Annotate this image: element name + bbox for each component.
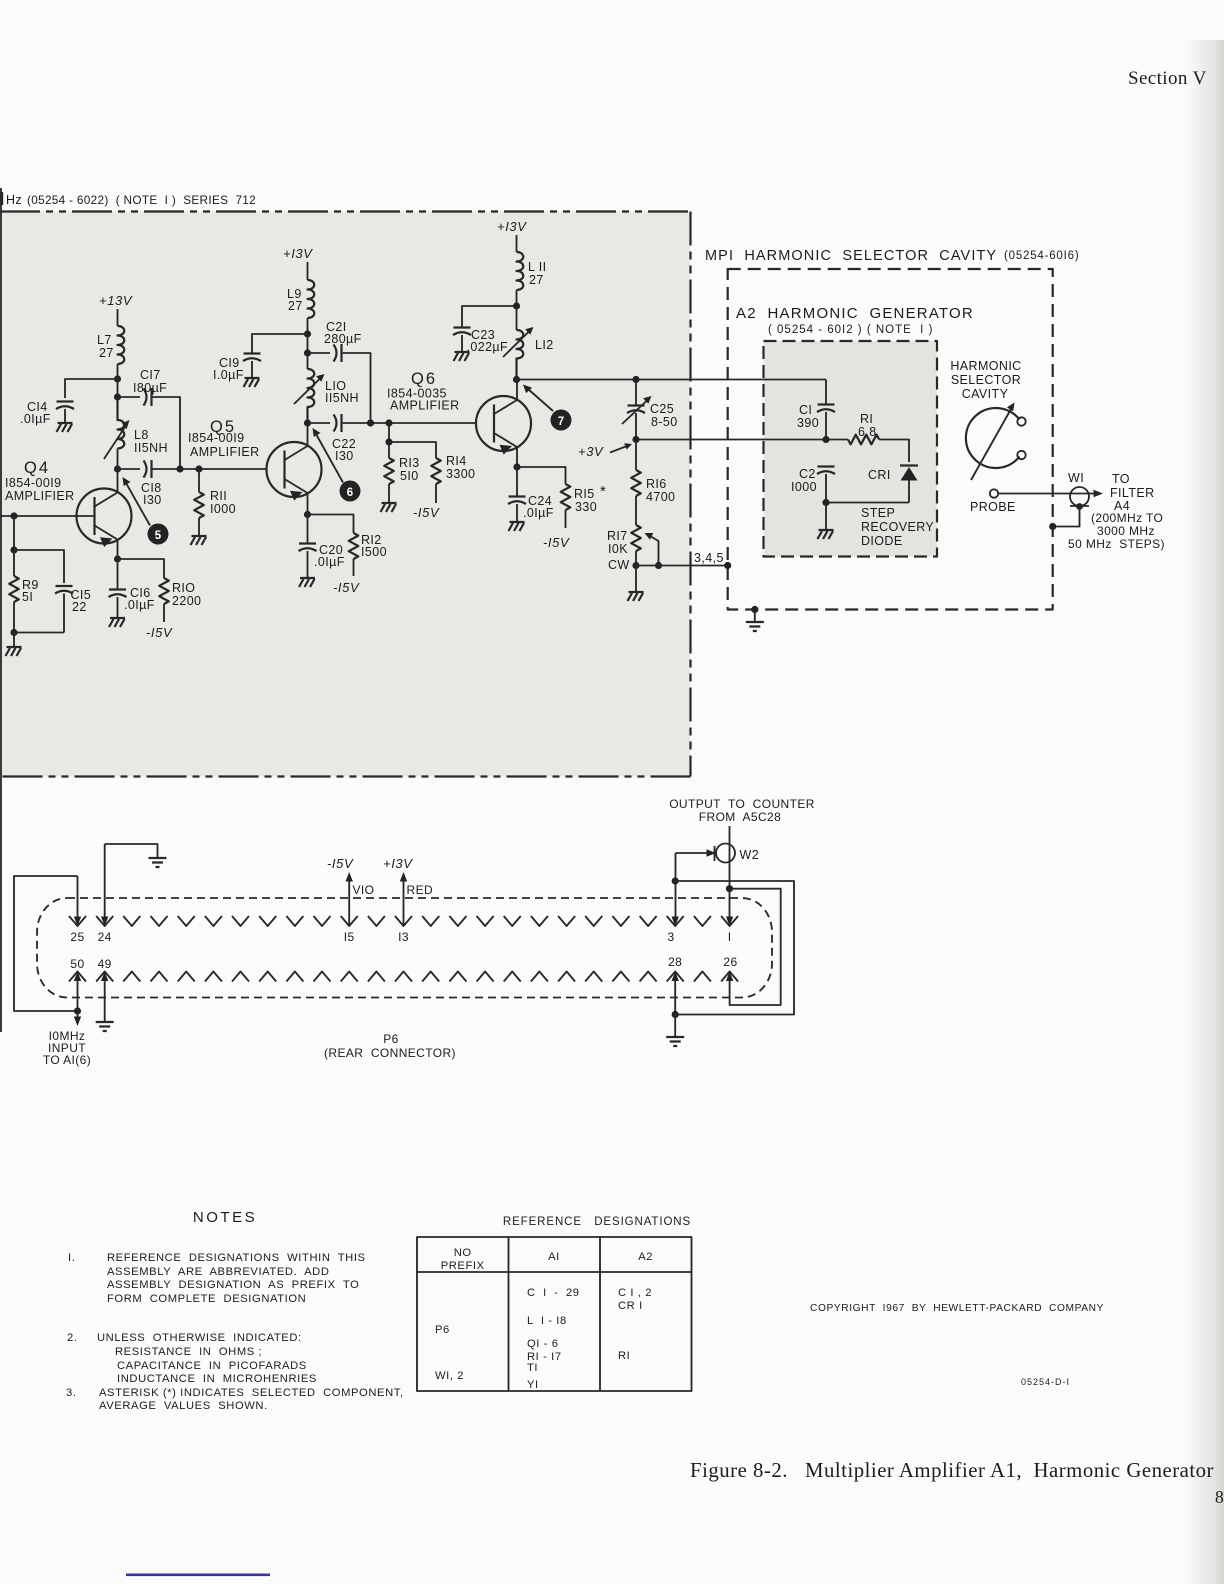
wire to ground	[754, 610, 756, 623]
svg-text:.0IµF: .0IµF	[124, 598, 155, 612]
svg-text:RECOVERY: RECOVERY	[861, 520, 934, 534]
capacitor C2	[817, 467, 835, 475]
svg-text:27: 27	[288, 299, 303, 313]
svg-text:W2: W2	[740, 848, 760, 862]
svg-text:I30: I30	[143, 493, 162, 507]
harmonic selector cavity symbol	[966, 403, 1026, 481]
probe wire to W1	[998, 493, 1097, 495]
inner loop pin1 to pin26	[730, 889, 781, 1005]
blue underline mark bottom left	[126, 1574, 270, 1577]
svg-text:C I , 2: C I , 2	[618, 1287, 652, 1299]
node dot C2 bottom	[822, 499, 829, 506]
svg-text:RI: RI	[860, 412, 873, 426]
svg-text:8: 8	[1215, 1487, 1224, 1507]
wire pin28 to ground	[674, 1015, 676, 1038]
wire to C15	[14, 550, 64, 583]
earth ground pin 49	[96, 1022, 114, 1031]
svg-text:-I5V: -I5V	[413, 505, 440, 520]
svg-text:I854-00I9: I854-00I9	[188, 431, 244, 445]
svg-text:RIO: RIO	[172, 581, 195, 595]
svg-text:RI4: RI4	[446, 454, 467, 468]
svg-text:RI: RI	[618, 1350, 630, 1362]
svg-text:I: I	[728, 930, 732, 944]
ground C14	[57, 423, 73, 432]
wire node to C21	[308, 352, 331, 354]
svg-text:3: 3	[667, 930, 674, 944]
svg-text:RED: RED	[407, 883, 434, 897]
ground R17	[628, 592, 644, 601]
resistor R12	[349, 533, 359, 559]
svg-text:CAPACITANCE IN PICOFARADS: CAPACITANCE IN PICOFARADS	[117, 1360, 307, 1372]
svg-text:INDUCTANCE IN MICROHENRIES: INDUCTANCE IN MICROHENRIES	[117, 1373, 317, 1385]
svg-text:UNLESS OTHERWISE INDICATED:: UNLESS OTHERWISE INDICATED:	[97, 1332, 302, 1344]
svg-text:TI: TI	[527, 1362, 538, 1374]
variable inductor L8	[118, 397, 125, 449]
W1 output arrow to filter	[1094, 490, 1104, 497]
transistor Q6	[387, 370, 531, 467]
earth ground pin 28	[666, 1037, 684, 1046]
svg-text:DIODE: DIODE	[861, 534, 903, 548]
svg-text:CI: CI	[799, 403, 812, 417]
bottom tie wire R9/C15	[14, 632, 64, 634]
svg-text:-I5V: -I5V	[146, 625, 173, 640]
wire node to C17	[118, 396, 141, 398]
svg-text:3,4,5: 3,4,5	[694, 551, 724, 565]
svg-text:2.: 2.	[67, 1332, 78, 1344]
A2 dashed inner box	[764, 341, 938, 557]
capacitor C15	[55, 586, 73, 594]
ground C20	[299, 578, 315, 587]
svg-text:I000: I000	[210, 502, 236, 516]
capacitor C1	[817, 405, 835, 413]
node dot R11 tap	[195, 465, 202, 472]
pin 49 stem arrow up	[104, 981, 106, 1022]
capacitor C17	[144, 388, 152, 406]
svg-text:390: 390	[797, 416, 819, 430]
svg-text:I3: I3	[398, 930, 409, 944]
ground C23	[454, 352, 470, 361]
svg-text:II5NH: II5NH	[134, 441, 168, 455]
pin 1 stem from W2 (drawn above)	[726, 917, 733, 927]
node dot C17 right branch	[176, 465, 183, 472]
svg-text:SELECTOR: SELECTOR	[951, 373, 1021, 387]
svg-text:AMPLIFIER: AMPLIFIER	[390, 399, 460, 413]
wire +13V to L11	[516, 235, 518, 252]
wire emitter node to R10	[118, 559, 165, 578]
svg-text:AVERAGE VALUES SHOWN.: AVERAGE VALUES SHOWN.	[99, 1400, 268, 1412]
coax connector W1	[1068, 471, 1089, 510]
svg-text:RI3: RI3	[399, 456, 420, 470]
svg-text:WI: WI	[1068, 471, 1084, 485]
svg-text:+3V: +3V	[578, 444, 604, 459]
svg-text:22: 22	[72, 600, 87, 614]
P6 top row pin chevrons	[69, 916, 738, 926]
earth ground pin 24	[149, 858, 167, 867]
svg-text:I30: I30	[335, 449, 354, 463]
Q5 emitter node dot	[304, 511, 311, 518]
svg-text:(05254-60I6): (05254-60I6)	[1004, 250, 1079, 262]
collector output wire to harmonic generator	[517, 379, 827, 381]
wire W2 down to pin 3	[675, 853, 677, 917]
svg-text:C I - 29: C I - 29	[527, 1287, 580, 1299]
svg-text:25: 25	[70, 930, 84, 944]
svg-text:RI5: RI5	[574, 487, 595, 501]
node dot C23 tap	[513, 302, 520, 309]
wire down to R9/C15	[13, 516, 15, 550]
svg-text:FILTER: FILTER	[1110, 486, 1155, 500]
svg-text:RESISTANCE IN OHMS ;: RESISTANCE IN OHMS ;	[115, 1346, 262, 1358]
svg-text:Q6: Q6	[411, 370, 437, 388]
ground A2	[818, 530, 834, 539]
svg-text:P6: P6	[435, 1324, 450, 1336]
A1 multiplier assembly dashed border bottom	[0, 775, 691, 777]
svg-text:I.: I.	[68, 1252, 75, 1264]
svg-text:L I - I8: L I - I8	[527, 1315, 567, 1327]
ground R11	[191, 536, 207, 545]
svg-text:49: 49	[98, 957, 112, 971]
svg-text:II5NH: II5NH	[325, 391, 359, 405]
svg-text:YI: YI	[527, 1379, 539, 1391]
svg-text:.022µF: .022µF	[467, 340, 509, 354]
svg-text:C2: C2	[799, 467, 816, 481]
node dot R14 tie	[385, 438, 392, 445]
wire collector node to C22	[308, 422, 331, 424]
resistor R10	[159, 578, 169, 604]
wire to C14	[65, 379, 118, 398]
svg-text:A2 HARMONIC GENERATOR: A2 HARMONIC GENERATOR	[736, 305, 974, 322]
node dot base branch	[10, 512, 17, 519]
callout 5 black circle	[148, 524, 169, 545]
Q6 collector node dot	[513, 376, 520, 383]
svg-text:I500: I500	[361, 545, 387, 559]
svg-text:8-50: 8-50	[651, 415, 678, 429]
svg-text:.0IµF: .0IµF	[523, 506, 554, 520]
svg-text:5I: 5I	[22, 590, 33, 604]
node dot pin3 loop	[672, 877, 679, 884]
wiper tie node dot	[655, 562, 662, 569]
wire L9 to node chain	[307, 318, 309, 369]
Q4 base wire from page edge	[0, 515, 95, 517]
svg-text:I80µF: I80µF	[133, 381, 167, 395]
svg-text:*: *	[600, 483, 606, 500]
node dot R13/R14 tap	[385, 419, 392, 426]
svg-text:27: 27	[529, 273, 544, 287]
svg-text:CRI: CRI	[868, 468, 891, 482]
svg-text:PREFIX: PREFIX	[441, 1260, 485, 1272]
svg-text:50: 50	[70, 957, 84, 971]
R17 wiper arrow	[650, 536, 659, 566]
svg-text:I5: I5	[344, 930, 355, 944]
A1 multiplier assembly dashed border right	[689, 212, 691, 777]
main schematic gray background	[0, 212, 690, 777]
right page-edge shading	[1186, 40, 1224, 1584]
wire to ground	[825, 503, 827, 530]
svg-text:26: 26	[723, 955, 737, 969]
pin 24 stem arrow down	[104, 844, 106, 917]
table frame	[417, 1237, 692, 1391]
svg-text:7: 7	[558, 416, 564, 428]
capacitor C20	[307, 515, 309, 544]
capacitor C18	[144, 460, 152, 478]
svg-text:ASSEMBLY ARE ABBREVIATED. A: ASSEMBLY ARE ABBREVIATED. ADD	[107, 1266, 330, 1278]
svg-text:28: 28	[668, 955, 682, 969]
capacitor C14	[56, 402, 74, 410]
svg-text:6: 6	[347, 487, 353, 499]
P6 bottom row pin chevrons	[69, 972, 738, 982]
pin 28 stem arrow up	[674, 981, 676, 1015]
node dot pin1 inner loop	[726, 885, 733, 892]
transistor Q4	[5, 459, 132, 559]
pin 13 stem arrow up +13V	[403, 878, 405, 926]
svg-text:+I3V: +I3V	[497, 219, 527, 234]
svg-text:+I3V: +I3V	[283, 246, 313, 261]
svg-text:PROBE: PROBE	[970, 500, 1016, 514]
svg-text:(200MHz TO: (200MHz TO	[1091, 511, 1163, 525]
wire to R14	[389, 442, 436, 458]
svg-text:LI2: LI2	[535, 338, 554, 352]
wire into C1 (from Q6 collector)	[825, 380, 827, 405]
svg-text:05254-D-I: 05254-D-I	[1021, 1377, 1070, 1387]
node dot +3V	[632, 436, 639, 443]
variable capacitor C25	[635, 380, 637, 406]
W2 tap wire with arrow	[676, 852, 709, 854]
svg-text:27: 27	[99, 346, 114, 360]
diode CR1 step recovery	[900, 464, 918, 466]
transistor Q5	[188, 418, 322, 515]
node dot on MP1 border	[1049, 523, 1056, 530]
svg-text:REFERENCE DESIGNATIONS: REFERENCE DESIGNATIONS	[503, 1216, 691, 1228]
svg-text:ASSEMBLY DESIGNATION AS PRE: ASSEMBLY DESIGNATION AS PREFIX TO	[107, 1279, 359, 1291]
resistor R11	[198, 469, 200, 492]
svg-text:.0IµF: .0IµF	[314, 555, 345, 569]
resistor R13	[388, 442, 390, 458]
svg-text:I0K: I0K	[608, 542, 628, 556]
svg-text:NOTES: NOTES	[193, 1209, 257, 1226]
svg-text:L II: L II	[528, 260, 547, 274]
W1 shield wire to MP1 box	[1053, 507, 1080, 527]
callout 6 black circle	[340, 481, 361, 502]
capacitor C19	[243, 354, 261, 362]
wire emitter node to R15	[517, 467, 566, 484]
partial M of MHz at left edge	[0, 192, 3, 205]
variable inductor L10	[308, 369, 315, 423]
node dot pin 28 ground	[672, 1011, 679, 1018]
capacitor C16	[117, 559, 119, 589]
svg-text:+13V: +13V	[99, 293, 133, 308]
svg-text:FORM COMPLETE DESIGNATION: FORM COMPLETE DESIGNATION	[107, 1293, 306, 1305]
svg-text:Q4: Q4	[24, 459, 50, 477]
A1 multiplier assembly dashed border top	[0, 210, 691, 212]
pin 3 arrowhead	[672, 917, 679, 927]
10MHz input arrow down	[77, 1011, 79, 1017]
svg-text:ASTERISK (*) INDICATES SELECT: ASTERISK (*) INDICATES SELECTED COMPONEN…	[99, 1387, 404, 1399]
svg-text:2200: 2200	[172, 594, 201, 608]
node dot C19 tap	[304, 330, 311, 337]
svg-text:STEP: STEP	[861, 506, 895, 520]
svg-text:.0IµF: .0IµF	[20, 412, 51, 426]
svg-text:TO: TO	[1112, 472, 1130, 486]
wire +13V to L7	[117, 309, 119, 326]
svg-text:COPYRIGHT I967 BY HEWLETT-P: COPYRIGHT I967 BY HEWLETT-PACKARD COMPAN…	[810, 1303, 1104, 1314]
capacitor C23	[453, 328, 471, 336]
resistor R9	[13, 550, 15, 576]
svg-text:CW: CW	[608, 558, 630, 572]
svg-text:Hz: Hz	[6, 193, 22, 207]
svg-text:FROM A5C28: FROM A5C28	[699, 810, 781, 824]
svg-text:RII: RII	[210, 489, 227, 503]
node dot at MP1 border	[724, 562, 731, 569]
wire counter to W2	[729, 826, 731, 917]
inductor L7	[118, 326, 125, 364]
ground R13	[381, 503, 397, 512]
node dot C25 tap	[632, 376, 639, 383]
svg-text:5I0: 5I0	[400, 469, 419, 483]
outer loop pin3 to pin28	[675, 881, 794, 1015]
wire R17 bottom to ground	[635, 566, 637, 592]
ground C19	[244, 378, 260, 387]
capacitor C22	[334, 414, 342, 432]
wire to ground	[13, 633, 15, 647]
svg-text:50 MHz STEPS): 50 MHz STEPS)	[1068, 537, 1165, 551]
svg-text:WI, 2: WI, 2	[435, 1370, 464, 1382]
wire CW to MP1 box	[636, 565, 728, 567]
wire C22 to Q6 base	[342, 422, 476, 424]
wire node to C18	[118, 449, 141, 470]
Q5 collector node dot	[304, 419, 311, 426]
wire L7 to node	[117, 364, 119, 397]
inductor L11	[517, 252, 524, 290]
pin 24 wire to chassis ground	[105, 844, 158, 858]
wire C21 to right branch down	[342, 353, 371, 423]
svg-text:QI - 6: QI - 6	[527, 1338, 559, 1350]
coax connector W2	[715, 844, 760, 863]
capacitor C24	[516, 467, 518, 496]
variable inductor L12	[517, 330, 524, 380]
svg-text:6.8: 6.8	[858, 425, 877, 439]
svg-text:330: 330	[575, 500, 597, 514]
page-edge scan line left	[0, 188, 2, 1032]
svg-text:OUTPUT TO COUNTER: OUTPUT TO COUNTER	[669, 797, 815, 811]
node dot R9 top	[10, 546, 17, 553]
svg-text:I854-00I9: I854-00I9	[5, 476, 61, 490]
inductor L9	[308, 280, 315, 318]
callout 5 arrow	[126, 483, 150, 526]
CW node dot	[632, 562, 639, 569]
pin 50 stem arrow up	[77, 981, 79, 1011]
probe terminal	[990, 489, 998, 497]
wire C18 to Q5 base	[152, 468, 267, 470]
node dot C1/C2/R1	[822, 436, 829, 443]
pin 26 arrowhead up	[726, 972, 733, 982]
wire down to R13/R14	[388, 423, 390, 442]
callout 7 black circle	[551, 410, 572, 431]
MP1 ground node dot	[751, 606, 758, 613]
wire +13V to L9	[307, 262, 309, 280]
svg-text:3300: 3300	[446, 467, 475, 481]
pin 25 stem arrow down	[77, 876, 79, 917]
svg-text:CR I: CR I	[618, 1300, 643, 1312]
svg-text:VIO: VIO	[353, 883, 375, 897]
P6 dashed outline	[37, 898, 772, 998]
svg-text:RI7: RI7	[607, 529, 628, 543]
wire to C23	[462, 306, 517, 327]
pin 15 stem arrow up -15V	[348, 878, 350, 926]
callout 6 arrow	[316, 434, 343, 483]
svg-text:(05254 - 6022) ( NOTE I ) S: (05254 - 6022) ( NOTE I ) SERIES 712	[27, 193, 256, 207]
bottom tie wire C2/CR1	[826, 502, 909, 504]
svg-text:AI: AI	[548, 1251, 560, 1263]
resistor R15	[561, 484, 571, 510]
wire C17 to right branch	[152, 397, 181, 469]
node dot C17 tap	[114, 393, 121, 400]
svg-text:-I5V: -I5V	[327, 856, 354, 871]
Q4 collector node dot	[114, 465, 121, 472]
svg-text:3000 MHz: 3000 MHz	[1097, 524, 1155, 538]
Q4 emitter node dot	[114, 555, 121, 562]
svg-text:L8: L8	[134, 428, 149, 442]
svg-text:C25: C25	[650, 402, 674, 416]
svg-text:(REAR CONNECTOR): (REAR CONNECTOR)	[324, 1046, 456, 1060]
svg-text:TO AI(6): TO AI(6)	[43, 1053, 91, 1067]
svg-text:CAVITY: CAVITY	[962, 387, 1009, 401]
svg-text:A2: A2	[638, 1251, 653, 1263]
potentiometer R17	[631, 525, 641, 551]
node dot L7/C14	[114, 375, 121, 382]
wire emitter node to R12	[308, 515, 354, 534]
svg-text:NO: NO	[454, 1247, 472, 1259]
svg-text:-I5V: -I5V	[333, 580, 360, 595]
resistor R16	[635, 440, 637, 471]
MP1 dashed enclosure	[728, 269, 1053, 610]
svg-text:4700: 4700	[646, 490, 675, 504]
svg-text:P6: P6	[383, 1032, 398, 1046]
svg-text:AMPLIFIER: AMPLIFIER	[190, 445, 260, 459]
svg-text:L7: L7	[97, 333, 112, 347]
svg-text:280µF: 280µF	[324, 332, 362, 346]
A2 harmonic generator inner gray background	[764, 341, 938, 557]
capacitor C21	[334, 344, 342, 362]
svg-text:( 05254 - 60I2 ) ( NOTE I ): ( 05254 - 60I2 ) ( NOTE I )	[768, 324, 933, 336]
node dot C21 branch	[367, 419, 374, 426]
callout 7 arrow	[528, 389, 553, 411]
svg-text:HARMONIC: HARMONIC	[950, 359, 1021, 373]
wire L11 to node	[516, 290, 518, 330]
svg-text:24: 24	[98, 930, 112, 944]
svg-text:MPI HARMONIC SELECTOR CAVIT: MPI HARMONIC SELECTOR CAVITY	[705, 248, 997, 264]
resistor R14	[431, 458, 441, 484]
node dot C21 tap	[304, 349, 311, 356]
svg-text:3.: 3.	[66, 1387, 77, 1399]
svg-text:Figure 8-2. Multiplier Ampli: Figure 8-2. Multiplier Amplifier A1, Har…	[690, 1459, 1214, 1482]
svg-text:Section V: Section V	[1128, 68, 1207, 89]
svg-text:I.0µF: I.0µF	[213, 368, 244, 382]
ground C16	[109, 618, 125, 627]
svg-text:+I3V: +I3V	[383, 856, 413, 871]
svg-text:CI7: CI7	[140, 368, 161, 382]
ground C24	[509, 522, 525, 531]
svg-text:-I5V: -I5V	[543, 535, 570, 550]
svg-text:5: 5	[155, 530, 162, 542]
+3V wire to A2 generator	[636, 439, 826, 441]
ground R9/C15	[6, 647, 22, 656]
wire to C19	[252, 334, 308, 353]
svg-text:RI6: RI6	[646, 477, 667, 491]
Q6 emitter node dot	[513, 463, 520, 470]
left loop wire pin 25 to 10MHz input	[14, 876, 78, 1011]
svg-text:I000: I000	[791, 480, 817, 494]
svg-text:REFERENCE DESIGNATIONS WITHI: REFERENCE DESIGNATIONS WITHIN THIS	[107, 1252, 366, 1264]
node dot ground tie	[10, 629, 17, 636]
